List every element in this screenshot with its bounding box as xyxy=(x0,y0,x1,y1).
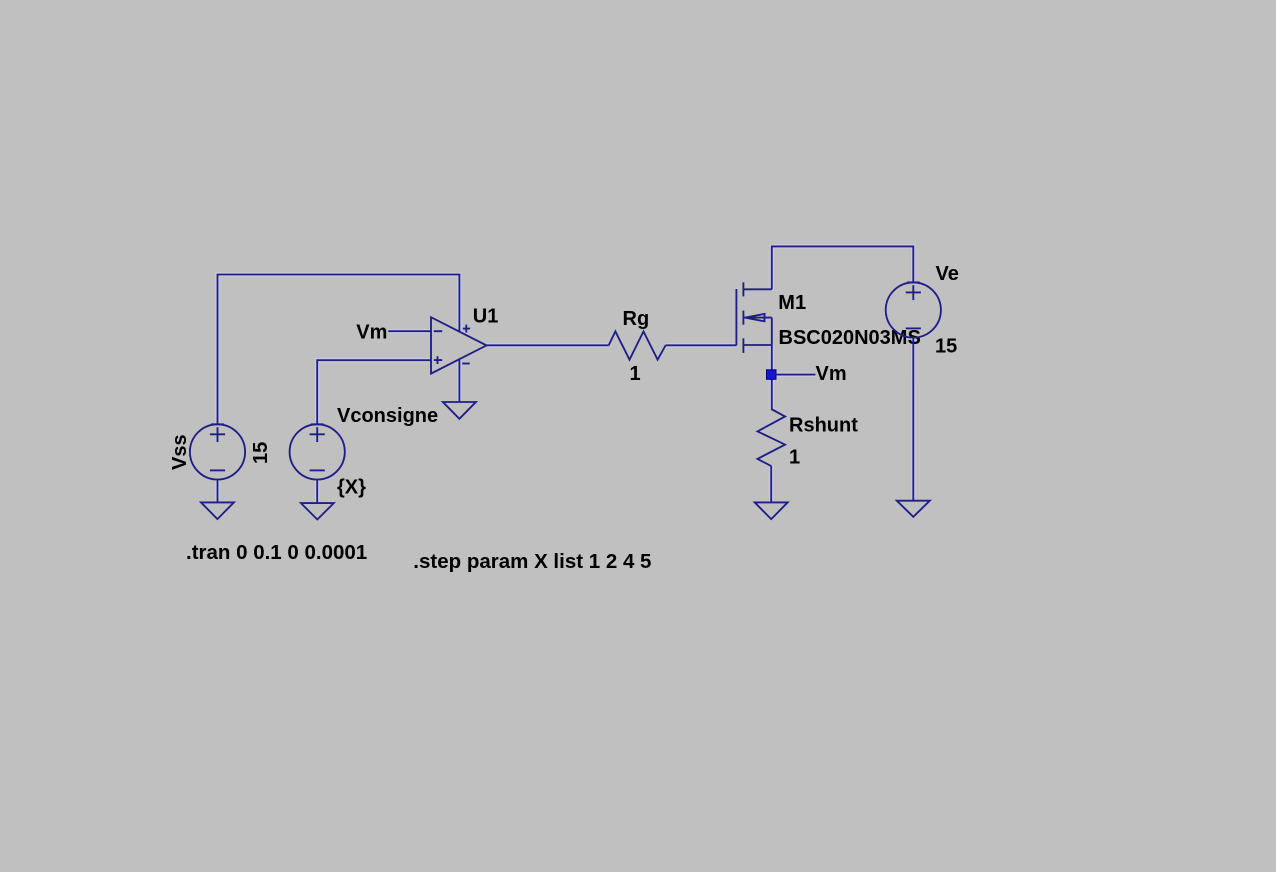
wire: Vss top to opamp V+ supply xyxy=(218,275,460,425)
wire: node to Vm label xyxy=(771,374,815,376)
svg-text:.tran 0 0.1 0 0.0001: .tran 0 0.1 0 0.0001 xyxy=(186,541,367,564)
wire: source down to Rshunt xyxy=(771,345,773,409)
svg-text:.step param X list 1 2 4 5: .step param X list 1 2 4 5 xyxy=(413,550,651,573)
wire: Vconsigne bottom xyxy=(316,480,318,504)
wire: Rg to gate xyxy=(666,344,737,346)
ground (Vss) xyxy=(201,502,234,519)
ground (Vconsigne) xyxy=(301,503,334,519)
wire: opamp V- supply to ground xyxy=(458,359,460,402)
op-amp U1 xyxy=(431,317,487,373)
wire: Rshunt to ground xyxy=(770,466,772,502)
svg-text:M1: M1 xyxy=(778,292,806,314)
svg-text:15: 15 xyxy=(935,336,957,358)
resistor Rg xyxy=(609,331,666,359)
svg-text:15: 15 xyxy=(250,442,272,464)
wire: Vconsigne to opamp + input xyxy=(317,360,431,424)
svg-text:1: 1 xyxy=(630,363,641,385)
wire: Ve bottom to ground xyxy=(912,338,914,501)
transistor M1 (NMOS) xyxy=(736,282,771,353)
node junction Vm xyxy=(767,370,777,380)
svg-text:Rg: Rg xyxy=(623,308,650,330)
svg-text:Vm: Vm xyxy=(816,363,847,385)
svg-text:BSC020N03MS: BSC020N03MS xyxy=(779,327,921,349)
svg-text:Ve: Ve xyxy=(936,263,959,285)
resistor Rshunt xyxy=(758,409,786,466)
svg-text:1: 1 xyxy=(789,447,800,469)
svg-text:{X}: {X} xyxy=(337,477,366,499)
ground (Ve) xyxy=(897,501,930,517)
svg-text:Vm: Vm xyxy=(356,322,387,344)
svg-text:Vconsigne: Vconsigne xyxy=(337,405,438,427)
wire: drain up and over to Ve xyxy=(772,246,914,289)
svg-text:Vss: Vss xyxy=(169,434,191,470)
ground (opamp) xyxy=(443,402,476,419)
svg-text:U1: U1 xyxy=(473,306,499,328)
voltage source Ve xyxy=(886,282,941,337)
voltage source Vconsigne xyxy=(290,424,345,479)
svg-text:Rshunt: Rshunt xyxy=(789,415,858,437)
wire: opamp output to Rg xyxy=(487,344,609,346)
voltage source Vss xyxy=(190,424,245,479)
wire: Vss bottom xyxy=(217,480,219,503)
ground (Rshunt) xyxy=(755,502,788,519)
halo underlay for wires xyxy=(218,246,914,503)
wire: Vm to opamp - input xyxy=(388,330,431,332)
